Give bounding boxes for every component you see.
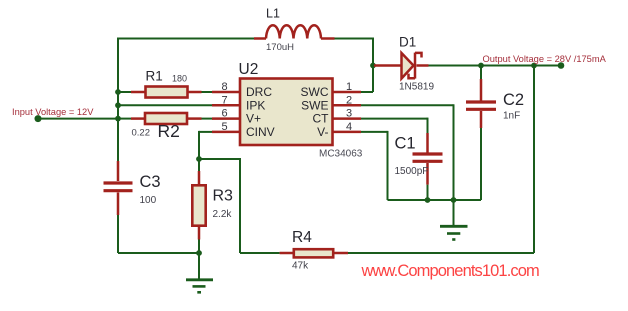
wire R4 jog vertical [239, 158, 241, 253]
capacitor C2 lead bottom [480, 111, 483, 128]
svg-text:8: 8 [221, 81, 227, 93]
pin 1 stub [333, 91, 361, 94]
svg-text:6: 6 [221, 108, 227, 120]
node output rail top [531, 63, 537, 69]
svg-text:100: 100 [140, 195, 157, 206]
wire R3 top green [198, 159, 200, 171]
capacitor C2 plates [466, 102, 496, 109]
wire CINV corner down [198, 131, 200, 159]
resistor R1 body [146, 87, 188, 98]
wire D1 cathode to output [429, 65, 562, 67]
wire C2 top green [480, 66, 482, 80]
svg-text:1N5819: 1N5819 [399, 82, 434, 93]
diode D1 cathode lead [417, 64, 429, 67]
pin 4 stub [333, 131, 361, 134]
capacitor C1 plates [413, 154, 443, 161]
svg-text:CINV: CINV [246, 125, 275, 139]
wire C1 bottom green [427, 185, 429, 200]
svg-text:1nF: 1nF [503, 111, 520, 122]
diode D1 triangle [402, 53, 414, 79]
wire jog to R4 [240, 252, 280, 254]
svg-text:CT: CT [313, 112, 330, 126]
svg-text:Output Voltage = 28V /175mA: Output Voltage = 28V /175mA [483, 54, 607, 64]
svg-text:C2: C2 [503, 91, 524, 109]
ground G2 bar2 [447, 232, 460, 235]
ground G1 bar1 [186, 278, 213, 281]
svg-text:R3: R3 [213, 188, 234, 205]
pin 8 stub [212, 91, 240, 94]
node CINV R3 [196, 156, 202, 162]
svg-text:0.22: 0.22 [132, 128, 151, 139]
svg-text:180: 180 [172, 74, 187, 84]
wire C2 bottom green [480, 128, 482, 200]
node output terminal [558, 62, 565, 69]
wire pin1 horizontal [361, 91, 373, 93]
pin 3 stub [333, 117, 361, 120]
inductor L1 coil [266, 25, 321, 38]
svg-text:R1: R1 [146, 69, 163, 84]
wire pin1 up to node [372, 66, 374, 93]
ground G2 dash [452, 238, 455, 241]
node L1 D1 junction [370, 63, 376, 69]
svg-text:2.2k: 2.2k [213, 209, 233, 220]
svg-text:www.Components101.com: www.Components101.com [361, 262, 540, 280]
svg-text:U2: U2 [239, 61, 259, 78]
svg-text:7: 7 [221, 94, 227, 106]
node G2 rail [451, 197, 457, 203]
svg-text:2: 2 [346, 94, 352, 106]
wire input to rail [38, 118, 118, 120]
wire top rail horizontal left [118, 38, 254, 40]
inductor L1 lead right [321, 37, 335, 40]
svg-text:D1: D1 [399, 35, 416, 50]
node C1 bottom [425, 197, 431, 203]
resistor R3 lead top [198, 171, 201, 185]
capacitor C1 lead bottom [426, 163, 429, 185]
wire left rail vertical [117, 38, 119, 162]
resistor R2 body [145, 113, 187, 124]
svg-text:L1: L1 [266, 7, 280, 21]
node rail IPK [115, 102, 121, 108]
ground G1 bar2 [193, 285, 206, 288]
node rail R1 [115, 89, 121, 95]
wire ground G2 stem [453, 200, 455, 226]
svg-text:1500pF: 1500pF [395, 166, 429, 177]
node C2 top [478, 63, 484, 69]
capacitor C3 lead top [117, 161, 120, 181]
pin 6 stub [212, 117, 240, 120]
resistor R2 lead right [187, 117, 202, 120]
pin 5 stub [212, 131, 240, 134]
wire ground G1 stem [198, 253, 200, 279]
resistor R4 lead right [334, 252, 349, 255]
wire pin3 horizontal [361, 118, 428, 120]
svg-text:C1: C1 [395, 135, 416, 153]
wire CINV to pin5 [199, 131, 213, 133]
svg-text:170uH: 170uH [266, 42, 294, 53]
wire drop to D1 node [372, 38, 374, 66]
ground G2 bar1 [440, 225, 468, 228]
ground G1 dash [197, 291, 201, 294]
node rail input [115, 116, 121, 122]
svg-text:47k: 47k [292, 261, 309, 272]
resistor R1 lead right [188, 91, 202, 94]
pin 2 stub [333, 104, 361, 107]
resistor R3 lead bottom [198, 226, 201, 240]
resistor R2 lead left [131, 117, 145, 120]
node input terminal [35, 115, 42, 122]
pin 7 stub [212, 104, 240, 107]
svg-text:V+: V+ [246, 112, 261, 126]
resistor R4 lead left [280, 252, 294, 255]
svg-text:4: 4 [346, 121, 352, 133]
svg-text:DRC: DRC [246, 85, 272, 99]
svg-text:SWE: SWE [301, 98, 328, 112]
svg-text:R2: R2 [158, 121, 180, 141]
svg-text:SWC: SWC [301, 85, 329, 99]
wire top rail horizontal right [335, 38, 374, 40]
svg-text:Input Voltage = 12V: Input Voltage = 12V [12, 107, 94, 117]
wire R1 row left [118, 91, 131, 93]
wire R3 bottom green [198, 240, 200, 254]
svg-text:C3: C3 [140, 173, 161, 191]
resistor R1 lead left [131, 91, 146, 94]
wire C3 to ground node [118, 252, 199, 254]
diode D1 anode lead [374, 64, 401, 67]
capacitor C1 lead top [426, 133, 429, 153]
op-amp ic U2 body [240, 79, 333, 146]
resistor R3 body [192, 185, 205, 225]
svg-text:R4: R4 [292, 229, 312, 246]
capacitor C2 lead top [480, 79, 483, 101]
svg-text:V-: V- [317, 125, 328, 139]
inductor L1 lead left [254, 37, 266, 40]
wire R4 to right rail [348, 252, 534, 254]
wire R2 row left [118, 118, 131, 120]
wire right rail vertical [533, 65, 535, 254]
wire pin4 drop [387, 131, 389, 200]
wire pin2 drop [453, 104, 455, 200]
wire pin4 horizontal [361, 131, 388, 133]
diode D1 schottky bar [414, 53, 417, 79]
wire C3 bottom [117, 215, 119, 253]
diode D1 schottky hook bottom [409, 74, 416, 79]
svg-text:1: 1 [346, 81, 352, 93]
node R3 bottom ground [196, 250, 202, 256]
capacitor C3 plates [104, 183, 133, 191]
svg-text:3: 3 [346, 108, 352, 120]
capacitor C3 lead bottom [117, 193, 120, 216]
wire pin2 horizontal [361, 104, 454, 106]
wire pin3 drop to C1 [427, 118, 429, 133]
wire R1 to pin8 [202, 91, 214, 93]
svg-text:MC34063: MC34063 [319, 149, 363, 160]
wire IPK row [118, 104, 213, 106]
wire bottom mid rail [388, 199, 482, 201]
svg-text:IPK: IPK [246, 98, 265, 112]
diode D1 schottky hook top [415, 53, 422, 58]
wire R2 to pin6 [202, 118, 214, 120]
wire node to R4 jog horizontal [199, 158, 240, 160]
svg-text:5: 5 [221, 121, 227, 133]
resistor R4 body [294, 249, 333, 257]
